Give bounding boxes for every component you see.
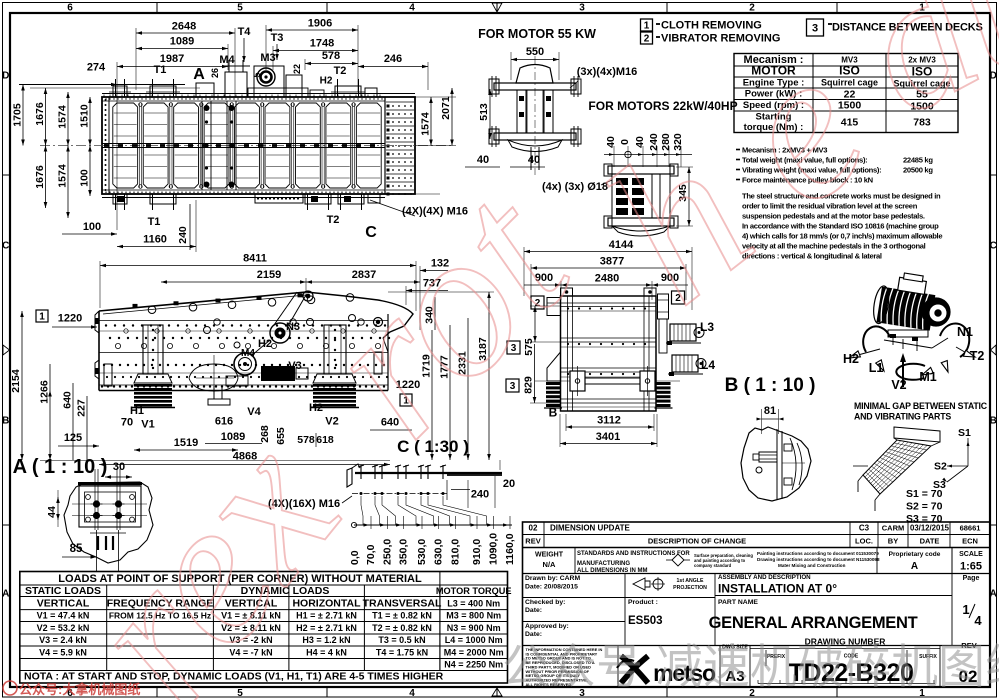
svg-text:H2: H2 (309, 402, 323, 414)
svg-text:1: 1 (962, 602, 969, 617)
svg-text:Checked by:: Checked by: (525, 599, 565, 606)
svg-text:1: 1 (39, 312, 45, 323)
svg-text:02: 02 (529, 524, 538, 533)
svg-text:(3x)(4x)M16: (3x)(4x)M16 (577, 66, 638, 78)
svg-text:513: 513 (478, 103, 490, 121)
svg-text:2154: 2154 (10, 369, 22, 393)
svg-text:3877: 3877 (600, 256, 624, 268)
svg-text:公众号:大拿机械图纸: 公众号:大拿机械图纸 (19, 682, 140, 697)
svg-text:240: 240 (471, 489, 489, 501)
svg-text:578: 578 (322, 50, 340, 62)
svg-text:3: 3 (579, 3, 585, 14)
svg-text:ASSEMBLY AND DESCRIPTION: ASSEMBLY AND DESCRIPTION (718, 574, 811, 581)
svg-text:A: A (193, 66, 205, 83)
svg-text:LOC.: LOC. (855, 537, 873, 546)
svg-text:100: 100 (83, 221, 101, 233)
svg-text:B: B (990, 416, 997, 427)
svg-text:03/12/2015: 03/12/2015 (910, 524, 950, 533)
svg-text:M4: M4 (219, 54, 235, 66)
svg-text:ECN: ECN (962, 537, 978, 546)
svg-text:V3: V3 (288, 360, 301, 372)
svg-text:1705: 1705 (12, 103, 24, 127)
svg-text:1220: 1220 (58, 313, 82, 325)
svg-text:B: B (549, 406, 558, 420)
svg-text:V4 = 5.9 kN: V4 = 5.9 kN (39, 647, 87, 657)
svg-text:4: 4 (409, 3, 415, 14)
svg-text:655: 655 (275, 427, 287, 445)
svg-text:TRANSVERSAL: TRANSVERSAL (363, 598, 442, 610)
svg-text:Drawing instructions according: Drawing instructions according to docume… (757, 557, 880, 562)
svg-text:C: C (990, 241, 997, 252)
svg-text:DESCRIPTION OF CHANGE: DESCRIPTION OF CHANGE (648, 537, 746, 546)
svg-text:8411: 8411 (243, 253, 267, 265)
svg-text:5: 5 (252, 72, 262, 77)
svg-text:M1: M1 (919, 370, 936, 384)
svg-text:1676: 1676 (34, 102, 46, 126)
svg-text:3112: 3112 (597, 415, 621, 427)
svg-text:5: 5 (237, 3, 243, 14)
svg-text:公众号 减速机破碎机图纸设计: 公众号 减速机破碎机图纸设计 (502, 640, 999, 693)
svg-text:246: 246 (384, 53, 402, 65)
svg-text:B ( 1 : 10 ): B ( 1 : 10 ) (725, 375, 816, 396)
svg-text:3401: 3401 (596, 431, 620, 443)
svg-text:V3 = 2.4 kN: V3 = 2.4 kN (39, 635, 87, 645)
svg-text:1676: 1676 (34, 165, 46, 189)
svg-text:V2: V2 (325, 416, 338, 428)
svg-text:2071: 2071 (440, 96, 452, 120)
svg-text:Painting instructions accordin: Painting instructions according to docum… (757, 551, 879, 556)
svg-text:T2: T2 (334, 65, 347, 77)
svg-text:618: 618 (316, 434, 334, 446)
svg-text:A: A (2, 589, 9, 600)
svg-text:T1 = ± 0.82 kN: T1 = ± 0.82 kN (372, 611, 432, 621)
svg-text:1: 1 (644, 21, 650, 32)
svg-text:N/A: N/A (543, 560, 557, 569)
svg-text:578: 578 (297, 434, 315, 446)
svg-text:T1: T1 (148, 216, 161, 228)
svg-text:1160,0: 1160,0 (504, 533, 516, 565)
svg-text:250,0: 250,0 (382, 539, 394, 565)
svg-text:M3 = 800 Nm: M3 = 800 Nm (446, 611, 501, 621)
svg-text:1906: 1906 (308, 18, 332, 30)
svg-text:2480: 2480 (595, 273, 619, 285)
svg-text:DIMENSION UPDATE: DIMENSION UPDATE (550, 524, 631, 533)
svg-text:A ( 1 : 10 ): A ( 1 : 10 ) (13, 456, 108, 478)
svg-text:L3 = 400 Nm: L3 = 400 Nm (447, 599, 500, 609)
svg-text:1089: 1089 (170, 36, 194, 48)
svg-text:FOR MOTOR 55 KW: FOR MOTOR 55 KW (478, 27, 596, 41)
svg-text:ES503: ES503 (628, 615, 663, 627)
svg-text:240: 240 (177, 226, 189, 244)
svg-text:S1 = 70: S1 = 70 (906, 488, 943, 500)
svg-text:DATE: DATE (920, 537, 940, 546)
svg-text:C: C (2, 241, 9, 252)
svg-text:4: 4 (974, 613, 982, 628)
svg-text:Date: 20/08/2015: Date: 20/08/2015 (525, 584, 578, 591)
svg-text:26: 26 (210, 68, 220, 78)
svg-text:CARM: CARM (882, 524, 905, 533)
svg-text:GENERAL ARRANGEMENT: GENERAL ARRANGEMENT (709, 614, 918, 632)
svg-text:S2 = 70: S2 = 70 (906, 501, 943, 513)
svg-text:ALL DIMENSIONS IN MM: ALL DIMENSIONS IN MM (577, 568, 648, 574)
svg-text:30: 30 (113, 461, 125, 473)
svg-text:L1: L1 (869, 361, 884, 375)
svg-text:V4: V4 (247, 406, 261, 418)
svg-text:68661: 68661 (960, 524, 981, 533)
svg-text:T2: T2 (970, 349, 985, 363)
svg-text:ISO: ISO (839, 64, 860, 78)
svg-text:Drawn by: CARM: Drawn by: CARM (525, 575, 580, 582)
svg-text:1574: 1574 (57, 164, 69, 188)
svg-text:274: 274 (87, 62, 106, 74)
svg-text:530,0: 530,0 (416, 539, 428, 565)
svg-text:3: 3 (812, 23, 818, 35)
svg-text:227: 227 (76, 399, 88, 417)
svg-text:L4 = 1000 Nm: L4 = 1000 Nm (445, 635, 503, 645)
svg-text:T4 = 1.75 kN: T4 = 1.75 kN (376, 647, 428, 657)
svg-text:Date:: Date: (525, 631, 542, 638)
svg-text:S2: S2 (934, 461, 947, 473)
svg-text:T2 = ± 0.82 kN: T2 = ± 0.82 kN (372, 623, 432, 633)
svg-text:Squirrel cage: Squirrel cage (821, 78, 878, 88)
svg-text:M4: M4 (241, 348, 255, 359)
svg-text:WEIGHT: WEIGHT (535, 552, 564, 559)
svg-text:268: 268 (259, 425, 271, 443)
svg-text:D: D (2, 71, 9, 82)
svg-text:22: 22 (292, 64, 302, 74)
svg-text:T3 = 0.5 kN: T3 = 0.5 kN (378, 635, 425, 645)
svg-text:BY: BY (888, 537, 898, 546)
svg-text:INSTALLATION AT 0°: INSTALLATION AT 0° (718, 582, 837, 596)
svg-text:Approved by:: Approved by: (525, 623, 569, 630)
svg-text:1510: 1510 (79, 104, 91, 128)
svg-text:22485 kg: 22485 kg (903, 156, 933, 165)
svg-text:V1: V1 (141, 419, 154, 431)
svg-text:H4 = 4 kN: H4 = 4 kN (306, 647, 347, 657)
svg-text:M3: M3 (260, 52, 275, 64)
svg-text:T1: T1 (154, 64, 167, 76)
svg-text:S1: S1 (958, 427, 971, 439)
svg-text:L4: L4 (701, 358, 715, 372)
svg-text:PART NAME: PART NAME (718, 599, 758, 606)
svg-text:REV: REV (525, 537, 540, 546)
svg-text:4: 4 (409, 688, 415, 699)
svg-text:44: 44 (46, 506, 58, 518)
svg-text:630,0: 630,0 (433, 539, 445, 565)
svg-text:810,0: 810,0 (450, 539, 462, 565)
svg-text:20: 20 (503, 478, 515, 490)
svg-text:2648: 2648 (172, 21, 196, 33)
svg-text:1748: 1748 (310, 38, 334, 50)
svg-text:H2: H2 (843, 352, 859, 366)
svg-text:Date:: Date: (525, 607, 542, 614)
svg-text:100: 100 (79, 169, 91, 187)
svg-text:N3 = 900 Nm: N3 = 900 Nm (447, 623, 501, 633)
svg-text:H2: H2 (320, 76, 333, 87)
svg-text:V2: V2 (891, 378, 906, 392)
svg-text:20500 kg: 20500 kg (903, 166, 933, 175)
svg-text:1090,0: 1090,0 (488, 533, 500, 565)
svg-text:2: 2 (644, 34, 650, 45)
svg-text:Product :: Product : (628, 599, 658, 606)
svg-text:1574: 1574 (420, 112, 432, 136)
svg-text:Mater Mixing and Construction: Mater Mixing and Construction (778, 563, 846, 568)
svg-text:1160: 1160 (143, 234, 167, 246)
svg-text:70: 70 (121, 417, 133, 429)
svg-text:MANUFACTURING: MANUFACTURING (577, 561, 630, 567)
svg-text:1st ANGLE: 1st ANGLE (677, 578, 704, 584)
svg-text:T4: T4 (238, 26, 252, 38)
svg-text:Proprietary code: Proprietary code (889, 551, 941, 558)
svg-text:STANDARDS AND INSTRUCTIONS FOR: STANDARDS AND INSTRUCTIONS FOR (577, 551, 690, 557)
svg-text:350,0: 350,0 (398, 539, 410, 565)
svg-text:1266: 1266 (39, 380, 51, 404)
svg-text:H1: H1 (130, 405, 144, 417)
svg-text:6: 6 (67, 3, 73, 14)
svg-text:N1: N1 (957, 325, 973, 339)
svg-text:MOTOR TORQUE: MOTOR TORQUE (436, 586, 512, 596)
svg-text:125: 125 (64, 432, 82, 444)
svg-text:PROJECTION: PROJECTION (673, 585, 707, 591)
svg-text:H2: H2 (258, 338, 272, 350)
svg-text:40: 40 (528, 154, 540, 166)
svg-text:A: A (911, 561, 918, 572)
svg-text:2159: 2159 (257, 269, 281, 281)
svg-text:1:65: 1:65 (960, 561, 982, 573)
svg-text:640: 640 (62, 391, 74, 409)
svg-text:C3: C3 (859, 524, 870, 533)
svg-text:1574: 1574 (57, 105, 69, 129)
svg-text:company standard: company standard (694, 563, 732, 568)
svg-text:81: 81 (764, 405, 776, 417)
svg-text:T3: T3 (271, 32, 284, 44)
svg-text:MINIMAL GAP BETWEEN STATIC: MINIMAL GAP BETWEEN STATIC (854, 401, 988, 411)
svg-text:2: 2 (749, 3, 755, 14)
svg-text:AND VIBRATING PARTS: AND VIBRATING PARTS (854, 412, 951, 422)
svg-text:B: B (2, 416, 9, 427)
svg-text:M4 = 2000 Nm: M4 = 2000 Nm (444, 647, 504, 657)
svg-text:40: 40 (477, 154, 489, 166)
svg-text:910,0: 910,0 (471, 539, 483, 565)
svg-text:N4 = 2250 Nm: N4 = 2250 Nm (444, 659, 503, 669)
svg-text:T2: T2 (327, 214, 340, 226)
svg-text:SCALE: SCALE (959, 551, 983, 558)
svg-text:Page: Page (963, 575, 980, 582)
svg-text:H3 = 1.2 kN: H3 = 1.2 kN (302, 635, 350, 645)
